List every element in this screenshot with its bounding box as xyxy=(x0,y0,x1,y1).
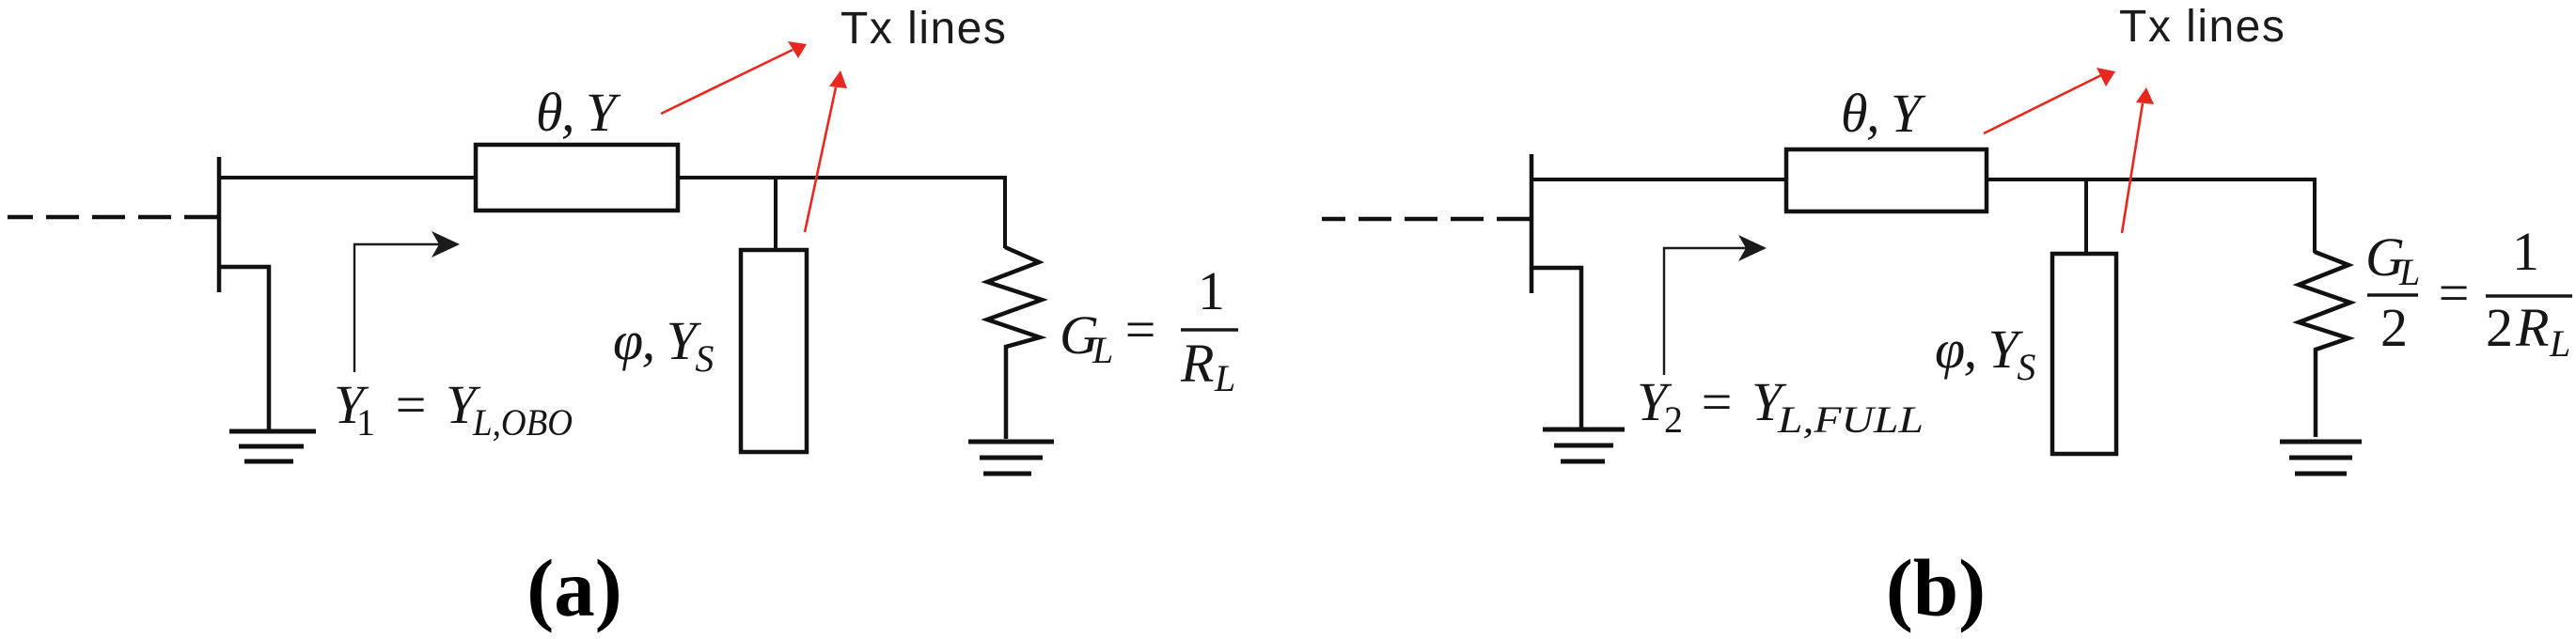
wire: corner down to load resistor (b) xyxy=(2313,178,2317,253)
fraction bar GL/2 (b) xyxy=(2367,293,2418,297)
arrow Y1 (admittance looking right) xyxy=(354,244,446,372)
wire: drain to TL box (a) xyxy=(219,176,478,179)
wire: drain to TL box (b) xyxy=(1531,178,1788,181)
svg-text:θ, Y: θ, Y xyxy=(1841,83,1926,144)
svg-text:(a): (a) xyxy=(526,542,621,633)
wire: dashed gate lead (a) xyxy=(8,215,217,220)
svg-text:2: 2 xyxy=(2380,297,2408,358)
fraction bar (a) xyxy=(1181,328,1238,332)
wire: TL box to load node (a) xyxy=(678,176,1005,179)
wire: stub tap (a) xyxy=(774,178,778,250)
svg-text:θ, Y: θ, Y xyxy=(536,82,621,143)
ground (a, source) xyxy=(229,431,316,461)
svg-text:GL: GL xyxy=(2365,226,2420,293)
svg-text:Y1=YL,OBO: Y1=YL,OBO xyxy=(334,374,573,444)
svg-text:1: 1 xyxy=(2512,221,2539,282)
red arrow 1 to Tx lines (a) xyxy=(661,50,793,114)
red arrow 2 to Tx lines (b) xyxy=(2122,103,2143,233)
open stub box φ,YS (a) xyxy=(741,250,807,452)
ground (b, source) xyxy=(1543,429,1625,461)
svg-text:φ, YS: φ, YS xyxy=(1935,319,2035,388)
resistor GL (a) xyxy=(987,247,1042,439)
fraction bar 1/2RL (b) xyxy=(2486,294,2572,298)
transistor bar Q (a) xyxy=(217,157,222,292)
transistor bar Q (b) xyxy=(1530,154,1534,293)
wire: TL box to load node (b) xyxy=(1987,178,2315,181)
svg-text:1: 1 xyxy=(1198,260,1225,321)
resistor GL/2 (b) xyxy=(2299,252,2350,437)
red arrow 1 to Tx lines (b) xyxy=(1984,75,2101,133)
svg-text:GL=: GL= xyxy=(1060,299,1158,371)
wire: corner down to load resistor (a) xyxy=(1003,176,1007,248)
svg-text:(b): (b) xyxy=(1886,542,1986,633)
transmission line box θ,Y (b) xyxy=(1786,149,1987,211)
wire: stub tap (b) xyxy=(2084,179,2088,254)
svg-text:φ, YS: φ, YS xyxy=(613,310,714,380)
arrow Y2 (admittance looking right) xyxy=(1664,248,1753,375)
transmission line box θ,Y (a) xyxy=(476,145,678,210)
svg-text:2RL: 2RL xyxy=(2486,297,2570,365)
open stub box φ,YS (b) xyxy=(2052,254,2116,454)
red arrow 2 to Tx lines (a) xyxy=(805,87,836,232)
ground (a, load) xyxy=(968,442,1054,474)
svg-text:Tx lines: Tx lines xyxy=(840,4,1007,54)
svg-text:Tx lines: Tx lines xyxy=(2119,2,2285,52)
wire: dashed gate lead (b) xyxy=(1322,217,1530,222)
ground (b, load) xyxy=(2280,442,2362,474)
svg-text:Y2=YL,FULL: Y2=YL,FULL xyxy=(1637,371,1924,441)
wire: source stub to ground (a) xyxy=(219,267,269,431)
svg-text:RL: RL xyxy=(1180,333,1235,399)
wire: source stub to ground (b) xyxy=(1531,268,1581,429)
svg-text:=: = xyxy=(2435,262,2472,323)
